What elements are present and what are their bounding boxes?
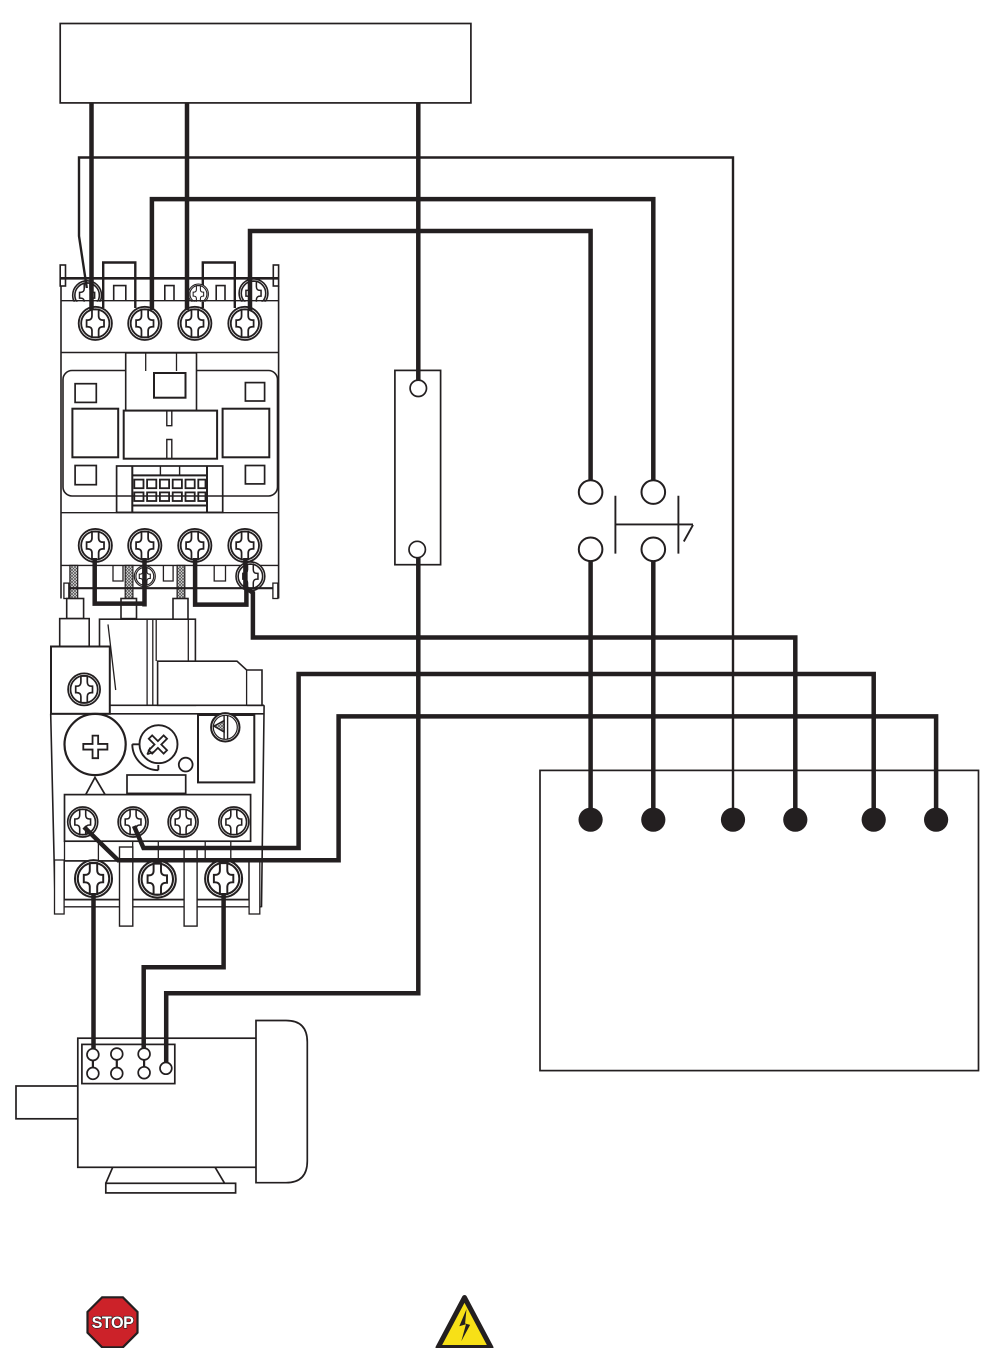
terminal dot 5 [862,808,886,832]
connector grid row 2 [134,492,205,501]
connector grid row 1 [134,480,205,489]
bottom right tab [273,583,278,598]
motor terminal V2 [138,1067,150,1079]
top band notch 2 [165,286,174,301]
bottom band notch 3 [214,565,225,581]
wire pushbutton right bottom to dot 2 [651,549,656,820]
contactor body sides [61,286,279,599]
center rect top slot [167,411,172,426]
aux screw bottom-middle [134,566,155,587]
terminal link 2 [116,1054,118,1073]
motor terminal W2 [87,1068,99,1080]
shoulder inner line [246,670,248,705]
motor body [78,1038,258,1167]
lower terminal screws T1 T2 T3 [75,860,112,897]
bottom rail [64,587,276,589]
overload left foot column [55,860,65,914]
terminal link 3 [143,1054,145,1073]
terminal strip box (bottom right, empty) [540,770,979,1070]
motor foot trapezoid [106,1167,225,1183]
overload top post left narrow [67,599,84,619]
left small square [75,384,96,403]
wire contactor 5L3 to pushbutton right [152,199,653,492]
contactor K1 body [61,278,279,588]
top band lower line [61,300,279,302]
main terminal screws top row L1 L2 L3 L4 [79,307,112,340]
overload bottom tab 1 [120,847,133,926]
lower terminal band [64,861,249,900]
overload main body outline [51,714,264,908]
center column [126,353,197,411]
aux terminal screw top-right [239,279,268,308]
right big square [223,409,270,458]
overload top post middle narrow [121,599,137,619]
wire fuse bottom to motor terminal W [166,550,418,1067]
bottom band upper line [61,564,279,566]
pushbutton contact circle bottom-right [642,538,666,562]
motor terminal U2 [111,1068,123,1080]
mounting pin hatched 3 [177,565,185,598]
wire contactor A1 to pushbutton left [250,231,591,492]
right small square lower [245,466,264,484]
jumper contactor 2T1-4T2 [95,558,145,604]
jumper contactor 6T3-8T4 [195,558,246,605]
fuse body [395,370,441,564]
main terminal screws bottom row T1 T2 T3 T4 [79,529,112,562]
overload bottom tab 2 [184,847,197,926]
wire overload 95 to dot 6 [84,716,936,860]
overload shoulder block [158,661,262,705]
wire pushbutton left bottom to dot 1 [588,549,593,820]
svg-text:STOP: STOP [92,1314,134,1332]
lightning bolt [459,1309,470,1341]
contactor link bar 1 [103,263,135,309]
terminal dot 1 [579,808,603,832]
upper terminal screws 95 96 97 98 [68,807,98,837]
contactor link bar 2 [203,263,235,309]
bottom band notch 1 [113,565,123,581]
wire overload T3 to motor V [144,893,224,1052]
coil connector block outer [117,466,223,512]
small round button [179,758,193,772]
left small square lower [75,466,96,485]
mounting pin hatched 2 [125,565,133,598]
X dial arc [132,744,158,770]
wire L2 from callout box to contactor 3L2 [185,103,190,310]
terminal dot 6 [924,808,948,832]
pushbutton contact circle top-right [642,480,666,504]
top-left block screw [68,673,100,705]
mounting pin hatched 1 [70,565,78,598]
motor terminal W1 [138,1048,150,1060]
divider under screws [61,352,279,354]
electrical hazard warning triangle [438,1298,491,1348]
label rect below dials [127,775,186,793]
aux terminal screw bottom-right [236,562,265,591]
jumper leg 4T2 [142,558,147,607]
terminal dot 3 [721,808,745,832]
dial X (trip class dial) [140,725,178,763]
terminal dot 4 [783,808,807,832]
motor terminal earth [160,1062,172,1074]
center big rect [124,411,217,459]
wire overload T1 to motor U [91,893,96,1052]
pushbutton actuator lines [615,496,693,554]
plus symbol on dial [83,736,107,759]
overload top post right narrow [173,599,188,621]
upper terminal band [65,795,251,842]
top band notch 1 [114,286,126,301]
motor terminal U1 [87,1049,99,1061]
contactor top rail [60,277,278,280]
wire contactor 8T4 to dot 4 [245,558,795,820]
pushbutton contact circle bottom-left [579,538,603,562]
aux terminal screw top-left [73,281,102,310]
overload top post left wide [60,619,89,647]
coil connector block wings [132,466,207,512]
connector top strip [160,466,179,475]
motor shaft [16,1086,78,1119]
aux screw top-middle [188,284,208,304]
terminal link 1 [92,1055,94,1074]
motor terminal V1 [111,1048,123,1060]
fuse circle bottom [409,541,425,557]
right small square [245,383,264,401]
overload foot lines [55,900,261,907]
contactor left top tab [60,265,65,286]
terminal dot 2 [641,808,665,832]
left big square [72,409,118,458]
divider above bottom screws [61,512,279,514]
thin control wire from aux 13NO to terminal dot 3 [79,158,733,820]
center rect bottom slot [167,440,172,459]
contactor right top tab [273,265,278,286]
pushbutton contact circle top-left [579,480,603,504]
bottom left tab [64,583,69,598]
wire overload 96 to dot 5 [134,674,874,848]
test button icon [211,713,239,741]
wire L1 from callout box to contactor 1L1 [89,103,94,310]
rounded front panel [63,371,278,497]
STOP sign [88,1297,138,1347]
wire from callout box to fuse top [416,103,421,388]
pushbutton spring flag [684,525,693,542]
test button housing [198,715,254,782]
overload top-left block with screw [51,647,110,714]
center column window [154,373,186,398]
overload top center block [100,619,196,705]
overload right foot column [249,860,260,914]
X dial arrow head [147,748,154,755]
motor end cap [256,1021,307,1183]
motor terminal box [82,1044,175,1083]
motor base [106,1183,236,1193]
callout box (top, empty) [60,24,471,103]
top band notch 3 [216,286,225,301]
fuse circle top [410,380,426,396]
bottom band notch 2 [163,565,173,581]
X symbol [143,730,173,760]
pointer triangle under dial [86,777,106,794]
separators between terminal bands [65,841,231,861]
dial plus (big adjustment dial) [65,714,126,775]
center block inner lines [108,619,188,705]
